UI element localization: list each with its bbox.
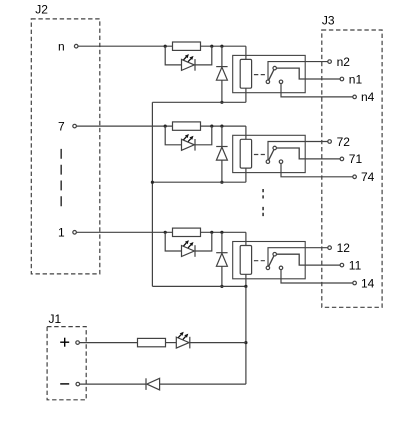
terminal n2 <box>328 60 332 64</box>
relay K3 coil-contact dashed link <box>254 260 265 262</box>
node C3 junction <box>220 231 223 234</box>
relay K1 contact NC point <box>279 80 283 84</box>
label - (J1) <box>60 383 69 385</box>
connector J2 dashed outline <box>31 19 100 274</box>
continuation dashes between channel 2 and 3 <box>262 189 264 199</box>
node A1 junction <box>164 45 167 48</box>
diode V1 rail junction <box>220 101 223 104</box>
node C1 junction <box>220 45 223 48</box>
right supply bus <box>245 286 247 384</box>
LED D2 <box>182 139 195 150</box>
terminal 74 <box>353 175 357 179</box>
svg-text:J1: J1 <box>49 312 62 326</box>
relay coil K3 bottom lead <box>245 274 247 286</box>
wire LED D3 branch right <box>195 232 212 251</box>
svg-text:74: 74 <box>361 170 375 184</box>
relay K2 coil-contact dashed link <box>254 154 265 156</box>
wire diode V4 to supply bus <box>160 383 246 385</box>
wire LED D4 to supply bus <box>190 342 246 344</box>
relay K2 contact armature <box>268 148 275 162</box>
supply bus junction with + feed <box>244 341 247 344</box>
wire resistor R3 to relay coil <box>201 231 246 233</box>
relay coil K2 bottom lead <box>245 168 247 182</box>
diode V3 rail junction <box>220 285 223 288</box>
terminal n1 <box>340 77 344 81</box>
relay coil K1 top lead <box>245 46 247 59</box>
connector J1 dashed outline <box>47 327 86 400</box>
svg-text:J2: J2 <box>35 2 48 16</box>
supply bus junction with channel rails <box>244 285 247 288</box>
relay K2 outline <box>233 135 306 172</box>
terminal - (J1) <box>76 382 80 386</box>
channel 1 return rail <box>152 101 246 103</box>
relay K1 contact armature <box>268 68 275 82</box>
resistor R1 <box>173 42 201 50</box>
channel 2 return rail <box>152 181 246 183</box>
svg-text:14: 14 <box>361 276 375 290</box>
freewheeling diode V1 lead <box>221 46 223 66</box>
freewheeling diode V3 <box>216 252 227 254</box>
relay K2 contact NC point <box>279 160 283 164</box>
svg-text:J3: J3 <box>322 14 335 28</box>
terminal n4 <box>353 95 357 99</box>
wire LED D3 branch left <box>165 232 181 251</box>
relay K3 contact armature <box>268 254 275 268</box>
pin 1 terminal <box>73 231 77 235</box>
wire contact to terminal 72 <box>268 142 328 160</box>
relay K3 contact pivot <box>266 266 270 270</box>
node B3 junction <box>210 231 213 234</box>
left return bus <box>151 102 153 286</box>
relay coil K2 <box>240 139 251 168</box>
relay coil K1 <box>240 59 251 88</box>
wire LED D2 branch left <box>165 126 181 145</box>
relay coil K1 bottom lead <box>245 88 247 102</box>
pin 7 terminal <box>73 124 77 128</box>
terminal 71 <box>340 157 344 161</box>
wire pin 7 to input network <box>76 125 172 127</box>
wire resistor R4 to LED D4 <box>166 342 177 344</box>
relay K3 contact upper point <box>273 252 277 256</box>
terminal 12 <box>328 246 332 250</box>
relay coil K3 top lead <box>245 232 247 245</box>
relay coil K3 <box>240 246 251 275</box>
svg-text:1: 1 <box>58 226 65 240</box>
channel 3 return rail <box>152 285 246 287</box>
resistor R2 <box>173 122 201 130</box>
wire contact to terminal 74 <box>281 164 353 177</box>
wire contact to terminal 14 <box>281 270 353 283</box>
wire resistor R2 to relay coil <box>201 125 246 127</box>
pin n terminal <box>74 44 78 48</box>
wire contact to terminal 71 <box>277 148 340 159</box>
wire contact to terminal n2 <box>268 62 328 80</box>
relay K3 contact NC point <box>279 266 283 270</box>
node B1 junction <box>210 45 213 48</box>
relay K1 contact pivot <box>266 80 270 84</box>
wire pin 1 to input network <box>76 231 172 233</box>
LED D3 <box>182 246 195 257</box>
svg-text:12: 12 <box>337 241 351 255</box>
terminal 72 <box>328 140 332 144</box>
LED D1 <box>182 59 195 70</box>
terminal 11 <box>340 263 344 267</box>
svg-text:n: n <box>58 40 65 54</box>
wire LED D2 branch right <box>195 126 212 145</box>
wire contact to terminal 12 <box>268 248 328 266</box>
reverse protection diode V4 <box>145 378 147 390</box>
wire LED D1 branch left <box>165 46 181 65</box>
svg-text:71: 71 <box>349 152 363 166</box>
node A2 junction <box>164 125 167 128</box>
wire resistor R1 to relay coil <box>201 45 246 47</box>
svg-text:11: 11 <box>349 258 362 272</box>
svg-text:72: 72 <box>337 135 351 149</box>
relay coil K2 top lead <box>245 126 247 139</box>
diode V2 rail junction <box>220 181 223 184</box>
wire + to resistor R4 <box>79 342 137 344</box>
left bus channel-2 junction <box>151 181 154 184</box>
svg-text:7: 7 <box>58 119 65 133</box>
freewheeling diode V1 <box>216 66 227 68</box>
relay K2 contact pivot <box>266 160 270 164</box>
wire - to diode V4 <box>80 383 146 385</box>
node B2 junction <box>210 125 213 128</box>
node A3 junction <box>164 231 167 234</box>
node C2 junction <box>220 125 223 128</box>
svg-text:n1: n1 <box>349 72 363 86</box>
wire contact to terminal n1 <box>277 68 340 79</box>
relay K3 outline <box>233 242 306 279</box>
wire contact to terminal 11 <box>277 254 340 265</box>
terminal 14 <box>353 281 357 285</box>
label + (J1) <box>60 341 69 343</box>
relay K1 contact upper point <box>273 66 277 70</box>
relay K1 coil-contact dashed link <box>254 74 265 76</box>
freewheeling diode V3 lead <box>221 232 223 252</box>
J2 omitted-pins dashed line <box>60 149 62 209</box>
freewheeling diode V2 lead <box>221 126 223 146</box>
connector J3 dashed outline <box>322 30 382 307</box>
LED D4 <box>176 337 189 348</box>
freewheeling diode V2 <box>216 146 227 148</box>
svg-text:n2: n2 <box>337 55 351 69</box>
relay K2 contact upper point <box>273 146 277 150</box>
resistor R4 <box>138 338 166 346</box>
terminal + (J1) <box>76 341 80 345</box>
resistor R3 <box>173 228 201 236</box>
svg-text:n4: n4 <box>361 90 375 104</box>
wire pin n to input network <box>78 45 173 47</box>
relay K1 outline <box>233 55 306 92</box>
wire LED D1 branch right <box>195 46 212 65</box>
wire contact to terminal n4 <box>281 84 353 97</box>
